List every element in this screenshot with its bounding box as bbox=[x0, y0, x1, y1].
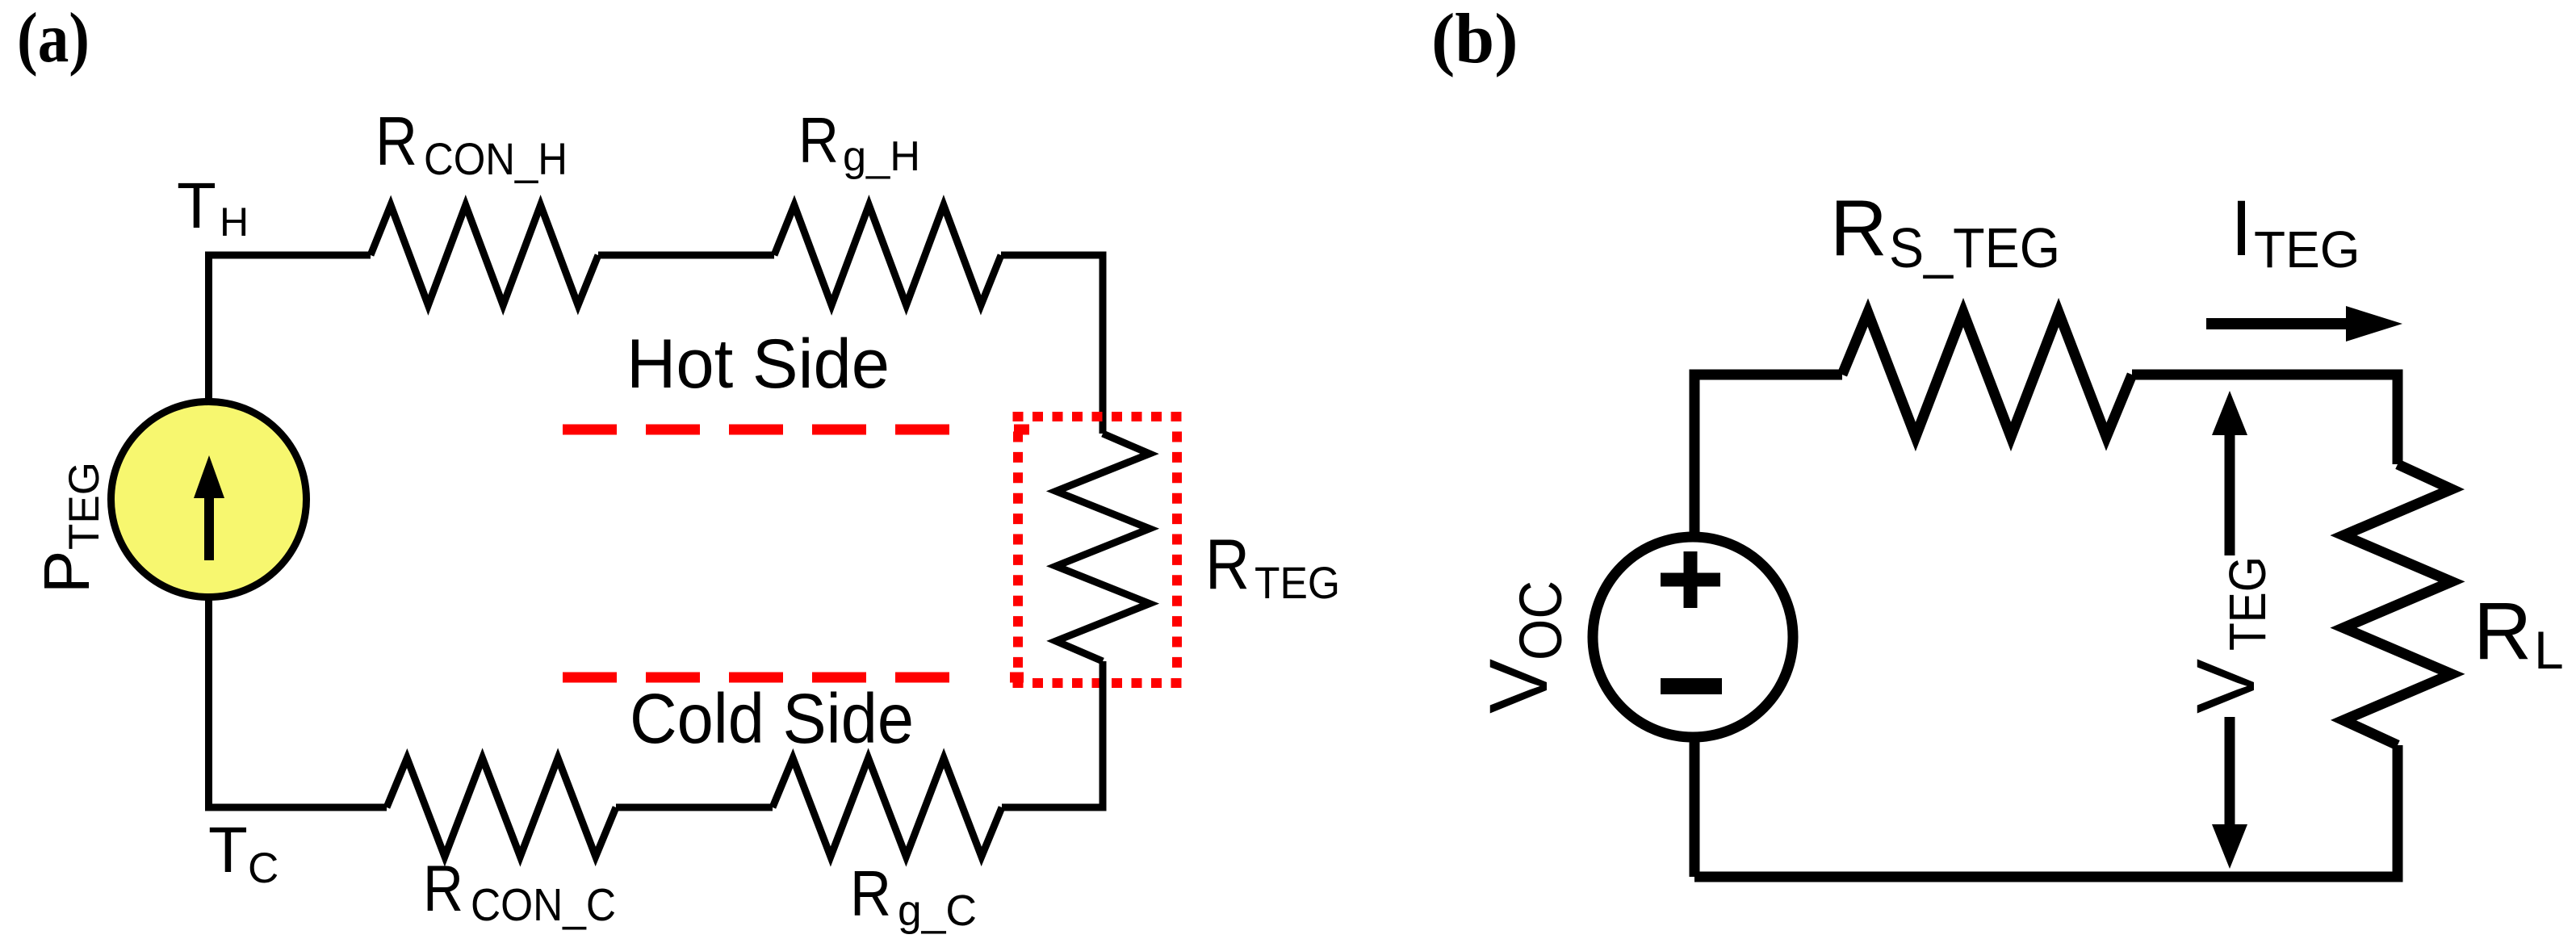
current arrow I_TEG bbox=[2206, 306, 2402, 342]
svg-text:TEG: TEG bbox=[2218, 556, 2277, 651]
V_OC plus sign bbox=[1661, 551, 1720, 608]
resistor R_L bbox=[2344, 464, 2452, 745]
svg-text:R: R bbox=[2473, 586, 2532, 677]
svg-text:P: P bbox=[31, 551, 103, 593]
wire R_S_TEG to top-right corner (b) down to R_L bbox=[2132, 375, 2398, 464]
svg-text:R: R bbox=[375, 103, 417, 180]
label R_S_TEG bbox=[1830, 183, 2060, 279]
V_OC minus sign bbox=[1661, 678, 1722, 694]
wire top-left (b): source top to R_S_TEG bbox=[1694, 375, 1842, 532]
label V_OC bbox=[1472, 580, 1574, 714]
svg-text:R: R bbox=[798, 104, 839, 176]
svg-text:Hot Side: Hot Side bbox=[626, 325, 890, 403]
label R_g_H bbox=[798, 104, 920, 180]
label R_g_C bbox=[850, 857, 977, 935]
svg-text:R: R bbox=[423, 853, 463, 925]
svg-text:g_H: g_H bbox=[843, 133, 920, 180]
svg-text:TEG: TEG bbox=[2254, 220, 2360, 279]
resistor R_g_H bbox=[774, 205, 1001, 305]
red dotted box around R_TEG bbox=[1013, 417, 1182, 683]
node T_C bbox=[208, 814, 279, 892]
svg-text:R: R bbox=[1205, 524, 1250, 604]
resistor R_CON_H bbox=[371, 205, 598, 305]
wire top-right corner (a) down to R_TEG bbox=[1001, 255, 1103, 434]
svg-text:OC: OC bbox=[1507, 580, 1574, 660]
wire below R_TEG to bottom-right corner (a) bbox=[1002, 661, 1103, 807]
svg-text:CON_C: CON_C bbox=[471, 879, 616, 931]
svg-text:g_C: g_C bbox=[898, 886, 977, 935]
current source P_TEG arrow bbox=[194, 455, 224, 560]
label R_CON_C bbox=[423, 853, 616, 931]
wire below R_L to bottom-right corner (b) bbox=[1694, 745, 2398, 877]
svg-text:(a): (a) bbox=[17, 0, 90, 78]
svg-text:H: H bbox=[220, 199, 249, 245]
label R_CON_H bbox=[375, 103, 568, 184]
label R_TEG bbox=[1205, 524, 1340, 608]
resistor R_TEG bbox=[1056, 434, 1150, 661]
svg-text:CON_H: CON_H bbox=[424, 133, 568, 184]
voltage source V_OC circle bbox=[1593, 537, 1793, 737]
label R_L bbox=[2473, 586, 2564, 680]
svg-text:T: T bbox=[208, 814, 248, 886]
red dashed hot-side boundary bbox=[563, 425, 949, 435]
svg-text:I: I bbox=[2230, 184, 2252, 272]
label V_TEG bbox=[2180, 556, 2277, 714]
resistor R_S_TEG bbox=[1842, 312, 2132, 437]
svg-text:V: V bbox=[1472, 659, 1564, 714]
resistor R_CON_C bbox=[387, 758, 616, 857]
svg-text:T: T bbox=[177, 170, 216, 241]
svg-text:R: R bbox=[1830, 183, 1887, 272]
node T_H bbox=[177, 170, 249, 245]
label P_TEG bbox=[31, 462, 108, 593]
voltage arrow V_TEG (double-headed) bbox=[2212, 391, 2247, 869]
resistor R_g_C bbox=[773, 758, 1002, 857]
svg-text:C: C bbox=[248, 845, 279, 892]
svg-text:(b): (b) bbox=[1431, 0, 1518, 78]
svg-text:R: R bbox=[850, 857, 891, 929]
svg-text:S_TEG: S_TEG bbox=[1889, 216, 2060, 279]
wire left vertical top (a): T_H corner down to current source bbox=[209, 255, 371, 401]
wire bottom-left (b) up to source bottom bbox=[1690, 742, 1700, 877]
svg-text:TEG: TEG bbox=[61, 462, 108, 550]
svg-text:L: L bbox=[2534, 620, 2564, 680]
wire bottom-left (a): T_C corner up to current source bbox=[209, 597, 387, 807]
svg-text:TEG: TEG bbox=[1254, 557, 1340, 608]
svg-text:V: V bbox=[2180, 659, 2272, 714]
wire between R_CON_C and R_g_C bbox=[616, 804, 773, 811]
wire between R_CON_H and R_g_H bbox=[598, 252, 774, 259]
current source P_TEG circle bbox=[111, 402, 307, 597]
svg-text:Cold Side: Cold Side bbox=[630, 680, 914, 758]
label I_TEG bbox=[2230, 184, 2360, 279]
red dashed cold-side boundary bbox=[563, 673, 949, 683]
